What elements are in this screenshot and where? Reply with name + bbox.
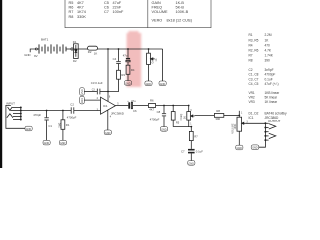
svg-text:R4: R4 [249, 43, 253, 47]
wire D to R2 [78, 48, 87, 50]
wire V+ rail [98, 48, 163, 50]
svg-text:4K7: 4K7 [149, 107, 154, 111]
resistor R3 [117, 70, 126, 79]
capacitor C7 0.1uF [181, 149, 203, 161]
svg-text:R7: R7 [249, 53, 253, 57]
svg-text:GND: GND [44, 142, 50, 145]
op-amp IC1 JRC386D [97, 96, 125, 119]
svg-text:R3: R3 [121, 73, 125, 77]
svg-text:C6: C6 [104, 6, 109, 10]
svg-text:1.74K: 1.74K [265, 53, 274, 57]
resistor R2 [88, 46, 98, 55]
svg-text:OUTPUT: OUTPUT [268, 119, 281, 123]
wire battery minus [37, 48, 39, 50]
svg-text:R2, R6: R2, R6 [249, 48, 259, 52]
wire bottom rail [173, 126, 191, 128]
svg-text:GND: GND [237, 147, 243, 150]
svg-text:GND: GND [189, 162, 195, 165]
node C8 [163, 105, 165, 107]
ground input jack [25, 126, 32, 131]
capacitor C3 0.1uF [84, 81, 108, 94]
svg-text:R7: R7 [194, 134, 198, 138]
ground C1 [43, 140, 50, 145]
svg-text:100K: 100K [234, 123, 237, 129]
ground C8 [160, 127, 167, 132]
ground GND (battery minus) [24, 49, 35, 57]
svg-text:330K: 330K [77, 15, 86, 19]
ground rail end [159, 81, 166, 86]
svg-text:R2: R2 [88, 50, 92, 54]
left black border bar [0, 0, 2, 168]
resistor R1 2M2 [59, 111, 70, 141]
svg-text:GND: GND [60, 142, 66, 145]
connector pin [71, 48, 73, 50]
svg-text:4700pF: 4700pF [67, 116, 77, 120]
wire R8 to volume [224, 114, 240, 116]
ground pin2 (rotated) [80, 96, 85, 104]
node C1 [46, 110, 48, 112]
ground gain pot [145, 81, 152, 86]
svg-text:4K7: 4K7 [77, 5, 84, 9]
svg-text:IC1: IC1 [103, 104, 108, 108]
legend text R column [69, 1, 87, 19]
svg-text:100K-B: 100K-B [176, 10, 189, 14]
node bypass [107, 91, 109, 93]
svg-text:JRC386D: JRC386D [111, 111, 125, 115]
svg-text:100nF: 100nF [113, 10, 124, 14]
svg-text:5: 5 [117, 102, 119, 105]
svg-text:GND: GND [26, 128, 32, 131]
wire rail end drop [162, 49, 164, 81]
svg-text:390: 390 [265, 59, 271, 63]
svg-text:R8: R8 [69, 15, 74, 19]
svg-text:C6: C6 [133, 109, 137, 113]
svg-text:390: 390 [215, 117, 220, 121]
svg-text:470: 470 [265, 43, 271, 47]
wire R3 to pin6 node [108, 79, 119, 91]
svg-text:R8: R8 [249, 59, 253, 63]
capacitor C1 470pF [33, 111, 52, 141]
svg-text:BAT1: BAT1 [41, 38, 49, 42]
svg-text:47uF (+/-): 47uF (+/-) [265, 82, 279, 86]
node R5 [172, 105, 174, 107]
resistor R4 [126, 65, 135, 80]
svg-text:0.1uF: 0.1uF [196, 149, 203, 153]
svg-text:VR2: VR2 [249, 96, 255, 100]
svg-text:GAIN: GAIN [152, 57, 155, 63]
svg-text:47uF: 47uF [113, 1, 122, 5]
resistor R8 [214, 109, 223, 121]
svg-text:C1, C8: C1, C8 [249, 73, 259, 77]
svg-text:GND: GND [146, 83, 152, 86]
capacitor C5 47u [123, 49, 130, 65]
svg-text:D2: D2 [73, 59, 77, 63]
legend text pots column [152, 1, 193, 22]
svg-text:C3, C7: C3, C7 [249, 77, 259, 81]
wire output pin5 [115, 105, 128, 107]
svg-text:47u: 47u [123, 54, 128, 58]
wire C2 to pin3 [74, 110, 101, 112]
svg-text:C3 0.1uF: C3 0.1uF [91, 81, 103, 85]
svg-text:5K: 5K [183, 116, 186, 119]
ground output jack [251, 145, 259, 150]
svg-text:VR1: VR1 [249, 91, 255, 95]
svg-text:4700pF: 4700pF [150, 117, 160, 121]
svg-text:2.2M: 2.2M [265, 33, 272, 37]
svg-text:GND: GND [252, 147, 258, 150]
svg-text:3n9pF: 3n9pF [265, 68, 274, 72]
svg-text:1: 1 [241, 112, 243, 114]
wire battery plus [66, 48, 71, 50]
svg-text:4: 4 [110, 115, 112, 118]
resistor R5 [171, 106, 179, 127]
wire pin6 drop [107, 49, 109, 101]
wire pin4 [107, 110, 109, 130]
svg-text:22nF: 22nF [113, 6, 122, 10]
svg-text:8x18 (12 CUts): 8x18 (12 CUts) [167, 18, 193, 22]
svg-text:GND: GND [81, 89, 84, 95]
svg-text:D1, D2: D1, D2 [249, 111, 259, 115]
svg-text:R8: R8 [216, 109, 220, 113]
capacitor C4 [113, 49, 121, 70]
svg-text:GND: GND [24, 53, 30, 57]
svg-text:4.7K: 4.7K [265, 48, 272, 52]
svg-text:GAIN: GAIN [152, 1, 162, 5]
legend text C column [104, 1, 124, 14]
svg-text:INPUT: INPUT [6, 101, 15, 105]
svg-text:R5: R5 [69, 1, 74, 5]
svg-text:C8: C8 [157, 110, 161, 114]
node R7 [190, 126, 192, 128]
wire volume stub [238, 111, 240, 117]
svg-text:1: 1 [190, 123, 192, 125]
svg-text:470pF: 470pF [33, 113, 41, 117]
wire input rail [21, 110, 71, 112]
svg-text:R1: R1 [249, 33, 253, 37]
svg-text:GND: GND [81, 98, 84, 104]
wire output to ground [259, 140, 266, 147]
svg-text:4K7: 4K7 [77, 1, 84, 5]
svg-text:0.1uF: 0.1uF [265, 77, 273, 81]
node volume top [238, 115, 240, 117]
diode D1/D2 box [73, 40, 78, 63]
resistor R6 [148, 98, 155, 111]
ground volume [236, 145, 243, 150]
svg-text:C3: C3 [92, 89, 96, 91]
svg-text:C4, C5: C4, C5 [249, 82, 259, 86]
ground C5/R4 [124, 81, 131, 86]
capacitor C6 47u [127, 99, 137, 113]
svg-text:IC1: IC1 [249, 116, 254, 120]
svg-text:1K74: 1K74 [77, 10, 86, 14]
ground bypass (rotated) [80, 88, 85, 96]
potentiometer VR1 GAIN [147, 49, 159, 81]
svg-text:C2: C2 [70, 102, 74, 106]
node rail/gain pot [148, 48, 150, 50]
potentiometer VR2 FREQ [180, 106, 195, 127]
svg-text:5K-B: 5K-B [176, 6, 185, 10]
potentiometer VR3 VOLUME [231, 117, 248, 145]
svg-text:C7: C7 [104, 10, 109, 14]
svg-text:GND: GND [161, 128, 167, 131]
highlight overlay (pink marker) [127, 31, 142, 87]
svg-text:1K: 1K [94, 51, 98, 55]
ground R1 [59, 140, 66, 145]
wire out rail [156, 105, 189, 107]
svg-text:VOLUME: VOLUME [152, 10, 169, 14]
svg-text:1KB linear: 1KB linear [265, 91, 281, 95]
input jack [6, 101, 25, 128]
svg-text:C1: C1 [48, 124, 52, 128]
wire wiper to output [245, 122, 265, 124]
svg-text:2M2: 2M2 [59, 122, 62, 127]
svg-text:C2: C2 [249, 68, 253, 72]
resistor R7 [189, 127, 198, 149]
svg-text:5K linear: 5K linear [265, 96, 279, 100]
svg-text:C4: C4 [113, 57, 117, 61]
node freq pot [188, 105, 190, 107]
battery BAT1 9V [34, 38, 66, 59]
svg-text:3: 3 [190, 110, 192, 112]
node rail/pin6 [107, 48, 109, 50]
node rail/C4 [118, 48, 120, 50]
svg-text:GND: GND [125, 82, 131, 85]
svg-text:R6: R6 [150, 98, 154, 102]
svg-text:GND: GND [105, 132, 111, 135]
svg-text:R6: R6 [69, 5, 74, 9]
node rail/C5 [127, 48, 129, 50]
svg-text:VR3: VR3 [249, 100, 255, 104]
svg-text:R4: R4 [131, 68, 135, 72]
svg-text:9V: 9V [34, 54, 38, 58]
svg-text:1K: 1K [155, 58, 158, 61]
capacitor C8 4700pF [150, 106, 166, 127]
wire C6 to R6 [133, 105, 149, 107]
connector battery minus [35, 48, 37, 50]
svg-text:VERO: VERO [152, 18, 163, 22]
svg-text:6: 6 [109, 96, 111, 99]
ground C7 [188, 161, 195, 166]
output jack [264, 119, 280, 141]
legend box frame [65, 0, 211, 28]
ground pin4 [104, 130, 111, 135]
svg-text:C7: C7 [181, 149, 185, 153]
capacitor C2 4700pF [67, 102, 77, 119]
parts table right [249, 33, 287, 120]
svg-text:1K linear: 1K linear [265, 100, 279, 104]
svg-text:4700pF: 4700pF [265, 73, 276, 77]
node R1 [62, 110, 64, 112]
svg-text:R3, R5: R3, R5 [249, 38, 259, 42]
svg-text:C5: C5 [104, 1, 109, 5]
svg-text:R1: R1 [66, 123, 70, 127]
wire wiper to R8 [195, 114, 215, 116]
svg-text:BAT46 schottky: BAT46 schottky [265, 111, 287, 115]
svg-text:R7: R7 [69, 10, 74, 14]
svg-text:1K-B: 1K-B [176, 1, 185, 5]
svg-text:1K: 1K [265, 38, 270, 42]
svg-text:GND: GND [160, 83, 166, 86]
svg-text:FREQ: FREQ [152, 6, 163, 10]
wire pin2 [84, 99, 100, 101]
